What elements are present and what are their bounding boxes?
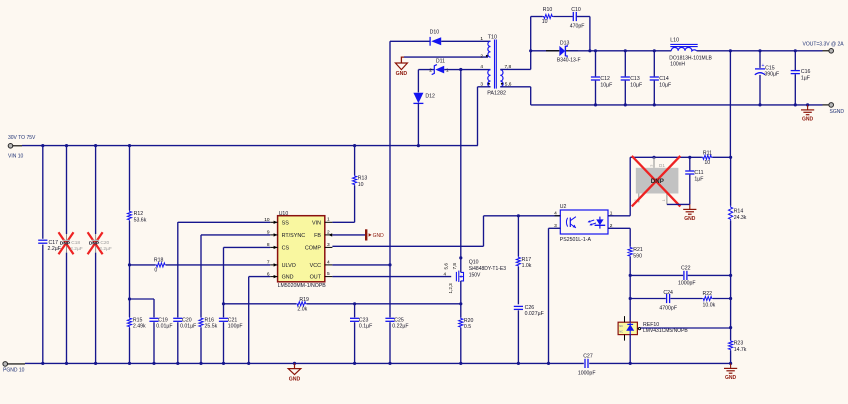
wire R10 to C10 bbox=[553, 16, 573, 18]
diode D10 bbox=[430, 29, 442, 45]
wire D12 branch bbox=[417, 70, 419, 93]
D1 DNP text bbox=[651, 178, 664, 185]
VOUT output port bbox=[829, 49, 834, 54]
svg-text:C27: C27 bbox=[583, 353, 593, 359]
svg-text:0.22µF: 0.22µF bbox=[392, 324, 408, 330]
svg-text:GND: GND bbox=[684, 216, 696, 222]
wire SGND rail bbox=[531, 103, 829, 106]
svg-text:C23: C23 bbox=[359, 317, 369, 323]
wire R20 bottom bbox=[460, 328, 462, 363]
svg-text:C20: C20 bbox=[100, 240, 109, 246]
wire C24 line bbox=[630, 298, 666, 300]
svg-text:PS2501L-1-A: PS2501L-1-A bbox=[560, 237, 592, 243]
svg-text:10µF: 10µF bbox=[600, 82, 612, 88]
svg-text:Q10: Q10 bbox=[469, 260, 479, 266]
svg-text:25.5k: 25.5k bbox=[205, 324, 218, 330]
resistor R19 bbox=[296, 297, 309, 312]
wire ULVO pin7 left bbox=[130, 264, 156, 266]
wire opto pin1 bbox=[608, 215, 630, 217]
ground GND secondary bbox=[801, 103, 814, 122]
capacitor C16 bbox=[791, 69, 811, 81]
svg-text:COMP: COMP bbox=[305, 245, 322, 251]
wire C17 branch bbox=[42, 146, 44, 364]
resistor R10 bbox=[542, 7, 553, 25]
wire R14 bottom bbox=[729, 221, 732, 340]
svg-text:GND: GND bbox=[802, 117, 814, 123]
svg-text:L10: L10 bbox=[670, 37, 679, 43]
svg-text:100pF: 100pF bbox=[228, 324, 243, 330]
capacitor C25 bbox=[385, 317, 408, 329]
wire C23 bottom bbox=[354, 322, 356, 363]
svg-text:30V TO 75V: 30V TO 75V bbox=[8, 135, 36, 141]
svg-text:DO1813H-101MLB: DO1813H-101MLB bbox=[669, 55, 712, 61]
svg-text:GND: GND bbox=[373, 233, 385, 239]
wire pin7,8 bbox=[500, 68, 530, 70]
PGND input port bbox=[3, 362, 25, 367]
svg-text:590: 590 bbox=[633, 253, 642, 259]
wire REF10 top bbox=[629, 322, 631, 334]
wire opto pin1 riser bbox=[629, 157, 631, 216]
svg-text:R18: R18 bbox=[154, 257, 164, 263]
svg-text:D1: D1 bbox=[659, 163, 665, 168]
svg-text:C16: C16 bbox=[801, 69, 811, 75]
node 30V TO 75V label bbox=[8, 135, 36, 141]
svg-text:D10: D10 bbox=[430, 29, 440, 35]
wire R23 bottom bbox=[730, 350, 732, 363]
wire opto pin3 bbox=[549, 228, 561, 363]
svg-text:D12: D12 bbox=[425, 94, 435, 100]
resistor R22 bbox=[702, 291, 715, 308]
svg-text:GND: GND bbox=[725, 375, 737, 381]
wire DNP C20 branch bbox=[95, 146, 97, 364]
capacitor C23 bbox=[350, 317, 372, 329]
resistor R21 bbox=[628, 247, 643, 260]
svg-text:150V: 150V bbox=[469, 272, 481, 278]
T10 pin 3 label bbox=[480, 81, 490, 87]
svg-text:GND: GND bbox=[289, 377, 301, 383]
svg-text:1000pF: 1000pF bbox=[678, 281, 696, 287]
svg-text:C10: C10 bbox=[571, 7, 581, 13]
svg-text:D13: D13 bbox=[560, 40, 570, 46]
capacitor C21 bbox=[219, 317, 243, 329]
T10 pin 7,8 label bbox=[505, 64, 512, 70]
svg-text:4: 4 bbox=[444, 271, 447, 276]
wire D10 right bbox=[441, 40, 490, 42]
wire R11 right bbox=[712, 156, 732, 159]
wire opto pin2 bbox=[608, 228, 630, 246]
wire C23 top bbox=[354, 304, 356, 318]
svg-text:C20: C20 bbox=[182, 317, 192, 323]
svg-text:10µF: 10µF bbox=[630, 82, 642, 88]
wire C24 to R22 bbox=[670, 298, 702, 300]
wire VIN rail bbox=[22, 144, 478, 147]
T10 pin 2 label bbox=[480, 54, 487, 60]
wire COMP pin3 bbox=[332, 245, 483, 247]
resistor R11 bbox=[702, 150, 712, 166]
wire VCC bias vertical bbox=[388, 41, 391, 363]
svg-text:B340-13-F: B340-13-F bbox=[557, 58, 581, 64]
wire R16 bottom bbox=[200, 328, 202, 364]
ground flag GND on FB bbox=[365, 229, 384, 240]
wire R12 top bbox=[129, 146, 131, 211]
wire R17 top bbox=[517, 216, 519, 257]
capacitor C27 bbox=[578, 353, 596, 376]
wire C19 bottom bbox=[153, 322, 155, 363]
svg-text:R16: R16 bbox=[205, 317, 215, 323]
resistor R23 bbox=[729, 340, 747, 353]
resistor R20 bbox=[459, 318, 474, 330]
Q10 pin number 5,6 label bbox=[444, 263, 449, 270]
wire pin3 to VIN rail bbox=[478, 87, 491, 146]
transistor Q10 symbol bbox=[456, 271, 463, 282]
svg-text:D11: D11 bbox=[436, 58, 445, 64]
op-amp U10 body bbox=[278, 216, 325, 282]
ground GND bias arrow bbox=[395, 57, 407, 77]
U10 part number label bbox=[278, 283, 327, 289]
svg-text:R19: R19 bbox=[299, 297, 309, 303]
resistor R14 bbox=[729, 206, 747, 221]
svg-text:R10: R10 bbox=[543, 7, 553, 13]
svg-text:4700pF: 4700pF bbox=[659, 305, 677, 311]
svg-text:T10: T10 bbox=[488, 34, 497, 40]
capacitor C17 bbox=[38, 240, 61, 252]
svg-text:4: 4 bbox=[480, 64, 483, 70]
wire CS sense right bbox=[307, 302, 463, 305]
svg-text:R21: R21 bbox=[633, 247, 643, 253]
svg-text:C22: C22 bbox=[681, 266, 691, 272]
svg-text:R13: R13 bbox=[358, 176, 368, 182]
wire R13 top bbox=[354, 146, 356, 175]
svg-text:C19: C19 bbox=[158, 317, 168, 323]
wire CS vertical bbox=[222, 247, 225, 317]
svg-text:C21: C21 bbox=[228, 317, 238, 323]
wire C20b bottom bbox=[177, 322, 179, 363]
U2 part number label bbox=[560, 237, 592, 243]
wire RT vertical bbox=[200, 235, 202, 317]
svg-text:FB: FB bbox=[314, 233, 321, 239]
resistor R12 bbox=[127, 210, 146, 223]
svg-text:5,6: 5,6 bbox=[444, 263, 449, 270]
svg-text:LM5020MM-1/NOPB: LM5020MM-1/NOPB bbox=[278, 283, 327, 289]
svg-text:C12: C12 bbox=[600, 76, 610, 82]
svg-text:0.1µF: 0.1µF bbox=[359, 324, 372, 330]
svg-text:2.2µF: 2.2µF bbox=[70, 246, 82, 252]
resistor R16 bbox=[199, 317, 218, 329]
svg-text:0: 0 bbox=[154, 268, 157, 274]
wire R13 bottom bbox=[354, 185, 356, 222]
svg-text:Si4848DY-T1-E3: Si4848DY-T1-E3 bbox=[469, 266, 507, 272]
wire GND pin vertical bbox=[248, 277, 250, 364]
Q10 refdes labels bbox=[469, 260, 507, 279]
wire R14 top bbox=[730, 157, 732, 206]
wire R17 to C26 bbox=[517, 267, 519, 305]
U2 pin stubs bbox=[554, 210, 613, 229]
REF10 refdes label bbox=[643, 322, 688, 334]
svg-text:2.49k: 2.49k bbox=[133, 324, 146, 330]
wire CS pin8 bbox=[224, 246, 271, 248]
wire D10 left bbox=[390, 40, 430, 42]
diode D13 bbox=[546, 40, 581, 63]
wire D12 bottom bbox=[417, 103, 419, 145]
ground GND under C11 bbox=[683, 204, 696, 222]
inductor L10 bbox=[669, 37, 712, 67]
wire D13 anode bbox=[531, 50, 559, 52]
svg-text:100nH: 100nH bbox=[670, 62, 685, 68]
svg-text:NC: NC bbox=[619, 324, 623, 328]
T10 pin 4 label bbox=[480, 64, 483, 70]
svg-text:0.01µF: 0.01µF bbox=[180, 324, 196, 330]
capacitor C11 bbox=[685, 157, 703, 204]
U2 phototransistor bbox=[566, 217, 576, 228]
svg-text:5: 5 bbox=[327, 271, 330, 277]
svg-text:24.3k: 24.3k bbox=[734, 215, 747, 221]
U2 LED bbox=[588, 217, 606, 229]
svg-text:2: 2 bbox=[429, 67, 432, 73]
capacitor C19 bbox=[149, 317, 172, 329]
U10 left pins bbox=[264, 217, 305, 281]
svg-text:U10: U10 bbox=[279, 211, 289, 217]
T10 secondary winding bbox=[500, 70, 503, 87]
svg-text:53.6k: 53.6k bbox=[134, 217, 147, 223]
DNP X over C18 bbox=[59, 232, 74, 254]
wire ULVO pin7 right bbox=[166, 264, 270, 266]
capacitor C26 bbox=[514, 305, 544, 317]
svg-text:C26: C26 bbox=[525, 305, 535, 311]
svg-text:R15: R15 bbox=[133, 317, 143, 323]
node VOUT label bbox=[803, 41, 845, 47]
op-amp U2 optocoupler body bbox=[560, 210, 608, 234]
wire D11 left corner bbox=[418, 69, 434, 71]
svg-text:1µF: 1µF bbox=[801, 76, 810, 82]
svg-text:0.01µF: 0.01µF bbox=[156, 324, 172, 330]
svg-text:GND: GND bbox=[396, 71, 408, 77]
svg-text:C18: C18 bbox=[71, 240, 80, 246]
T10 primary winding bbox=[488, 70, 491, 87]
wire SS pin10 bbox=[178, 221, 270, 224]
wire opto pin4 line bbox=[484, 214, 561, 217]
diode D1 DNP block bbox=[634, 157, 678, 204]
capacitor C20 DNP (greyed) bbox=[89, 240, 112, 252]
node VIN 10 label bbox=[8, 154, 24, 160]
svg-text:VOUT=3.3V @ 2A: VOUT=3.3V @ 2A bbox=[803, 41, 845, 47]
svg-text:VIN: VIN bbox=[312, 220, 321, 226]
svg-text:10: 10 bbox=[704, 160, 710, 166]
svg-text:470pF: 470pF bbox=[570, 24, 585, 30]
wire SS vertical bbox=[177, 222, 179, 317]
capacitor C14 bbox=[650, 76, 671, 88]
DNP X over C20 bbox=[88, 232, 103, 254]
svg-text:7,8: 7,8 bbox=[452, 263, 457, 270]
wire VCC pin4 bbox=[332, 264, 390, 266]
svg-text:C24: C24 bbox=[663, 290, 673, 296]
wire C26 bottom bbox=[517, 310, 519, 363]
wire REF10 bottom bbox=[629, 335, 631, 364]
resistor R13 bbox=[353, 175, 368, 188]
capacitor C10 bbox=[570, 7, 585, 30]
wire VOUT rail bbox=[568, 49, 671, 52]
svg-text:R11: R11 bbox=[703, 150, 712, 156]
wire RT/SYNC pin9 bbox=[201, 234, 270, 236]
svg-text:RT/SYNC: RT/SYNC bbox=[282, 233, 306, 239]
svg-text:+: + bbox=[762, 63, 765, 69]
svg-text:10: 10 bbox=[358, 182, 364, 188]
capacitor C15 polarized bbox=[755, 63, 779, 77]
wire C14 branch bbox=[653, 51, 655, 105]
svg-text:ULVO: ULVO bbox=[282, 263, 296, 269]
T10 pin 1 label bbox=[480, 36, 483, 42]
T10 bias winding bbox=[488, 41, 491, 57]
ground GND primary mid bbox=[288, 362, 301, 383]
svg-text:2: 2 bbox=[480, 54, 483, 60]
U10 refdes label bbox=[279, 211, 289, 217]
wire D1 bottom to GND bbox=[667, 203, 690, 205]
wire COMP riser bbox=[483, 216, 485, 247]
T10 refdes label bbox=[487, 34, 506, 96]
svg-text:SS: SS bbox=[282, 220, 290, 226]
svg-text:1,2,3: 1,2,3 bbox=[448, 283, 453, 294]
VIN input port bbox=[8, 144, 22, 149]
wire pin2 to GND bbox=[404, 56, 488, 58]
transformer T10 core bbox=[495, 40, 497, 89]
svg-text:R14: R14 bbox=[734, 209, 744, 215]
svg-text:4: 4 bbox=[554, 210, 557, 216]
svg-text:DNP: DNP bbox=[60, 241, 71, 247]
wire C10 right bbox=[577, 17, 590, 51]
wire R22 right bbox=[713, 298, 731, 300]
wire GND pin6 bbox=[249, 276, 271, 278]
svg-text:R12: R12 bbox=[134, 211, 144, 217]
wire CS sense left bbox=[224, 303, 297, 305]
wire R21 bottom bbox=[629, 257, 632, 322]
svg-text:14.7k: 14.7k bbox=[734, 347, 747, 353]
capacitor C22 bbox=[678, 266, 696, 287]
wire Q10 source bbox=[460, 281, 462, 304]
svg-text:R20: R20 bbox=[464, 318, 474, 324]
wire snubber top left bbox=[531, 16, 543, 18]
svg-text:2.2µF: 2.2µF bbox=[48, 246, 61, 252]
svg-text:R23: R23 bbox=[734, 341, 744, 347]
svg-text:DNP: DNP bbox=[651, 178, 664, 185]
diode D11 zener bbox=[429, 58, 449, 74]
wire Q10 drain vertical bbox=[459, 68, 462, 273]
capacitor C13 bbox=[621, 76, 642, 88]
svg-text:3: 3 bbox=[327, 242, 330, 248]
svg-text:2.0k: 2.0k bbox=[297, 306, 307, 312]
svg-text:0.027µF: 0.027µF bbox=[525, 311, 544, 317]
U2 refdes label bbox=[560, 204, 567, 210]
svg-text:4: 4 bbox=[327, 259, 330, 265]
svg-text:CS: CS bbox=[282, 245, 290, 251]
svg-text:LMV431CM5/NOPB: LMV431CM5/NOPB bbox=[643, 328, 688, 334]
resistor R17 bbox=[516, 256, 532, 269]
svg-text:VIN 10: VIN 10 bbox=[8, 154, 24, 160]
wire jog to C19 bbox=[128, 297, 154, 317]
svg-text:1000pF: 1000pF bbox=[578, 371, 596, 377]
wire C11 top line bbox=[630, 156, 702, 159]
wire C16 branch bbox=[794, 51, 796, 105]
svg-text:SGND: SGND bbox=[830, 109, 845, 115]
Q10 pin number 1,2,3 label bbox=[448, 283, 453, 294]
wire R15 bottom bbox=[129, 328, 131, 364]
svg-text:2: 2 bbox=[327, 229, 330, 235]
wire R20 top bbox=[460, 304, 462, 318]
wire snubber riser bbox=[529, 17, 532, 70]
capacitor C20b bbox=[173, 317, 196, 329]
svg-text:R17: R17 bbox=[522, 257, 532, 263]
capacitor C18 DNP (greyed) bbox=[60, 240, 83, 252]
svg-text:3: 3 bbox=[649, 165, 653, 167]
svg-text:1: 1 bbox=[662, 199, 666, 201]
wire DNP C18 branch bbox=[66, 146, 68, 364]
U10 right pins bbox=[305, 217, 333, 281]
wire C22 line bbox=[630, 274, 730, 276]
wire ULVO node vertical bbox=[128, 221, 131, 299]
svg-text:C25: C25 bbox=[394, 317, 404, 323]
wire D11 right bbox=[444, 69, 490, 71]
wire VIN pin1 bbox=[332, 221, 354, 223]
svg-text:1: 1 bbox=[480, 36, 483, 42]
svg-text:C13: C13 bbox=[630, 76, 640, 82]
svg-text:10.0k: 10.0k bbox=[703, 302, 716, 308]
wire C13 branch bbox=[624, 51, 626, 105]
DNP X over D1 bbox=[632, 156, 681, 207]
svg-text:1: 1 bbox=[327, 217, 330, 223]
svg-text:0.5: 0.5 bbox=[464, 324, 471, 330]
svg-text:2.2µF: 2.2µF bbox=[99, 246, 111, 252]
wire C21 bottom bbox=[223, 322, 225, 363]
svg-text:1µF: 1µF bbox=[694, 176, 703, 182]
svg-text:U2: U2 bbox=[560, 204, 567, 210]
svg-text:OUT: OUT bbox=[310, 275, 322, 281]
svg-text:PA1282: PA1282 bbox=[487, 91, 506, 97]
node PGND 10 label bbox=[3, 368, 25, 374]
op-amp REF10 body bbox=[618, 316, 641, 341]
wire VOUT rail right bbox=[697, 49, 829, 52]
wire primary ground rail bbox=[25, 362, 732, 365]
Q10 pin number 7,8 label bbox=[452, 263, 457, 270]
svg-text:1: 1 bbox=[446, 67, 449, 73]
svg-text:GND: GND bbox=[282, 275, 294, 281]
capacitor C24 bbox=[659, 290, 677, 312]
wire C15 branch bbox=[759, 51, 761, 105]
wire REF line bbox=[641, 327, 731, 329]
wire OUT pin5 bbox=[332, 276, 451, 278]
svg-text:VCC: VCC bbox=[310, 263, 321, 269]
svg-text:PGND 10: PGND 10 bbox=[3, 368, 25, 374]
svg-text:390µF: 390µF bbox=[764, 71, 779, 77]
ground GND right bottom bbox=[724, 363, 737, 381]
svg-text:C11: C11 bbox=[694, 170, 703, 176]
Q10 pin number 4 label bbox=[444, 271, 447, 276]
capacitor C12 bbox=[591, 76, 612, 88]
SGND output port bbox=[829, 103, 834, 108]
wire sense vertical top bbox=[729, 51, 731, 158]
svg-text:10µF: 10µF bbox=[659, 82, 671, 88]
svg-text:10: 10 bbox=[542, 19, 548, 25]
svg-text:C14: C14 bbox=[659, 76, 669, 82]
resistor R18 bbox=[154, 257, 166, 273]
diode D12 bbox=[413, 93, 435, 104]
T10 pin 5,6 label bbox=[501, 81, 512, 87]
svg-text:NC: NC bbox=[619, 330, 623, 334]
node SGND label bbox=[830, 109, 845, 115]
svg-text:1.0k: 1.0k bbox=[522, 263, 532, 269]
svg-text:R22: R22 bbox=[703, 291, 713, 297]
wire pin5,6 bbox=[500, 87, 530, 105]
resistor R15 bbox=[127, 299, 146, 330]
wire FB pin2 bbox=[332, 234, 365, 236]
svg-text:DNP: DNP bbox=[89, 241, 100, 247]
